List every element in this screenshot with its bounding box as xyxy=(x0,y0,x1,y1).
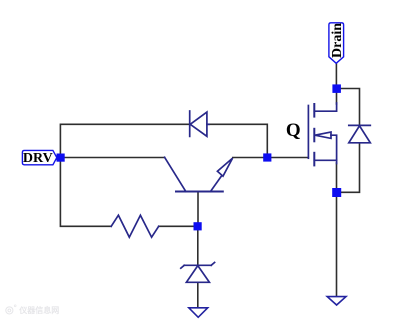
port Drain xyxy=(329,23,344,64)
wire xyxy=(341,89,360,126)
transistor Q1 xyxy=(165,157,233,191)
wire xyxy=(64,157,165,159)
node J1 xyxy=(57,154,65,162)
wire xyxy=(271,157,308,159)
resistor R1 xyxy=(111,215,159,237)
wire xyxy=(233,157,264,159)
node J3 xyxy=(194,222,202,230)
wire xyxy=(336,197,338,297)
zener diode D3 xyxy=(181,262,215,282)
wire xyxy=(197,192,199,223)
wire xyxy=(336,163,338,188)
wire xyxy=(197,282,199,307)
wire xyxy=(159,225,194,227)
ground xyxy=(189,308,208,318)
wire xyxy=(341,143,360,193)
port DRV xyxy=(22,150,56,164)
svg-text:Q: Q xyxy=(286,120,301,141)
wire xyxy=(197,230,199,265)
node J5 xyxy=(332,188,341,197)
diode D2 xyxy=(349,125,371,142)
watermark xyxy=(5,306,145,318)
wire xyxy=(60,124,189,157)
wire xyxy=(335,63,337,84)
node J2 xyxy=(263,153,271,161)
ground xyxy=(327,297,346,305)
wire xyxy=(336,93,338,105)
node J4 xyxy=(332,84,341,93)
wire xyxy=(60,161,111,226)
svg-text:DRV: DRV xyxy=(23,151,53,166)
wire xyxy=(207,124,267,154)
svg-text:Drain: Drain xyxy=(330,23,345,58)
diode D1 xyxy=(190,111,209,136)
mosfet Q xyxy=(308,103,336,165)
